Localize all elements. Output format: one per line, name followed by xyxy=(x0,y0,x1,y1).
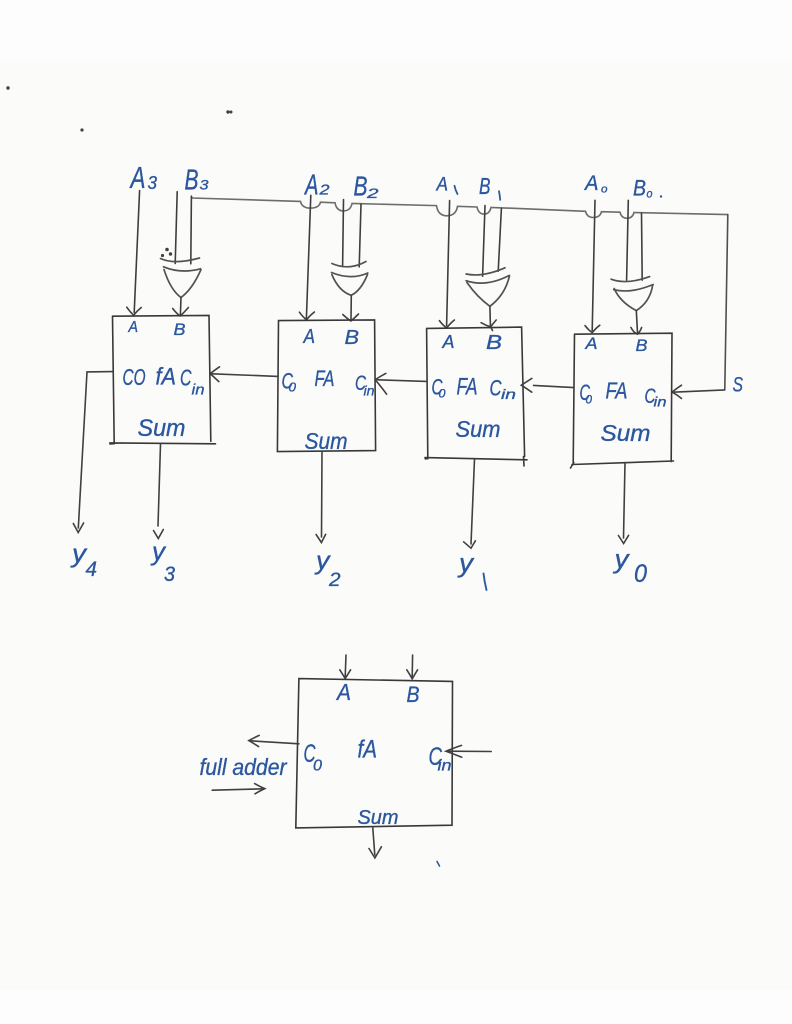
wire: B0 input xyxy=(627,200,629,280)
arrowhead y0 xyxy=(618,535,628,543)
wire: A input arrow xyxy=(344,655,347,677)
svg-text:fA: fA xyxy=(358,736,378,764)
svg-text:Sum: Sum xyxy=(305,428,348,454)
svg-text:B: B xyxy=(354,171,368,202)
wire: FA1 C0 out, left then down to y4 xyxy=(78,372,112,528)
wire: FA3 sum out xyxy=(471,459,475,544)
wire: XOR3 output xyxy=(489,306,492,326)
wire: S stub to XOR2 xyxy=(359,204,361,267)
wire: Cin input arrow from right xyxy=(448,750,492,752)
faint page specks xyxy=(227,111,229,113)
svg-text:y: y xyxy=(457,548,475,578)
wire: XOR2 output xyxy=(350,295,352,319)
svg-text:2: 2 xyxy=(328,570,341,591)
svg-text:B: B xyxy=(407,682,420,707)
arrowhead y4 xyxy=(73,523,83,533)
full adder FA1 box (bit 3) xyxy=(110,315,216,444)
svg-text:in: in xyxy=(192,382,205,399)
svg-text:in: in xyxy=(501,386,516,402)
wire: FA1 sum out xyxy=(158,444,161,526)
wire: B1 input xyxy=(483,206,485,277)
wire: S to Cin of FA4 xyxy=(673,390,725,392)
svg-text:3: 3 xyxy=(200,177,209,193)
arrowhead y3 xyxy=(154,530,164,539)
arrowhead XOR2 out into FA2 B xyxy=(343,314,359,321)
svg-text:A: A xyxy=(128,319,138,336)
blue tick mark xyxy=(437,862,440,867)
wire: B2 input xyxy=(342,200,345,267)
svg-text:full adder: full adder xyxy=(200,754,288,780)
svg-text:B: B xyxy=(185,165,199,197)
wire: S stub to XOR3 xyxy=(498,209,501,272)
arrowhead y1 xyxy=(464,541,476,548)
xor gate X2 (stage 2) xyxy=(332,262,368,296)
svg-text:Sum: Sum xyxy=(601,420,651,446)
wire: C0 output arrow to left xyxy=(250,741,299,744)
svg-text:2: 2 xyxy=(318,182,330,199)
svg-text:Sum: Sum xyxy=(358,807,399,829)
svg-text:in: in xyxy=(364,383,375,399)
arrowhead XOR4 out into FA4 B xyxy=(631,328,642,335)
svg-text:0: 0 xyxy=(439,387,446,401)
wire: full adder pointer arrow xyxy=(212,789,264,790)
arrowhead A3 into FA1 xyxy=(127,307,141,315)
svg-text:A: A xyxy=(583,172,598,195)
wire: FA4 sum out xyxy=(624,463,626,538)
svg-text:B: B xyxy=(636,336,648,355)
wire: A0 input xyxy=(592,200,595,330)
svg-text:FA: FA xyxy=(315,366,335,391)
svg-text:A: A xyxy=(302,325,315,348)
wire: S line right vertical drop xyxy=(725,215,728,389)
wire: A1 input xyxy=(447,201,450,326)
xor gate X4 (stage 0) xyxy=(611,277,653,311)
xor gate X1 (stage 3) xyxy=(161,258,202,298)
svg-text:B: B xyxy=(345,326,360,349)
svg-text:A: A xyxy=(129,160,145,195)
wire: S stub to XOR1 xyxy=(190,196,193,264)
wire: B3 input from label xyxy=(175,192,177,264)
svg-text:B: B xyxy=(479,173,491,199)
svg-text:B: B xyxy=(633,176,646,201)
wire: A3 input xyxy=(134,191,139,313)
subscript tick of y1 xyxy=(484,574,487,591)
full adder FA3 box (bit 1) xyxy=(425,327,527,466)
arrowhead into FA4 Cin xyxy=(672,385,681,398)
subscript tick of A1 xyxy=(455,186,458,194)
arrowhead into FA3 Cin xyxy=(521,378,532,392)
wire: B input arrow xyxy=(411,655,413,677)
stray pen dots near XOR1 xyxy=(166,249,168,251)
svg-text:o: o xyxy=(601,184,608,196)
svg-text:0: 0 xyxy=(634,560,647,588)
svg-text:0: 0 xyxy=(289,380,297,395)
svg-text:in: in xyxy=(654,394,667,410)
svg-text:Sum: Sum xyxy=(138,415,186,442)
svg-text:3: 3 xyxy=(148,173,158,193)
svg-text:fA: fA xyxy=(156,364,177,391)
svg-text:C: C xyxy=(180,365,192,391)
wire: FA2 sum out xyxy=(321,452,324,537)
arrowhead A1 into FA3 xyxy=(439,320,454,328)
svg-text:y: y xyxy=(612,544,630,574)
svg-text:A: A xyxy=(335,679,351,705)
arrowhead A2 into FA2 xyxy=(299,312,314,320)
svg-text:B: B xyxy=(174,320,186,339)
svg-text:in: in xyxy=(438,758,452,775)
xor gate X3 (stage 1) xyxy=(466,268,509,307)
subscript tick of B1 xyxy=(499,191,500,200)
svg-text:2: 2 xyxy=(366,185,379,201)
wire: A2 input xyxy=(306,195,310,318)
svg-text:FA: FA xyxy=(606,378,628,404)
svg-text:C: C xyxy=(490,376,502,401)
wire: XOR4 output xyxy=(636,311,637,333)
svg-text:0: 0 xyxy=(586,393,593,407)
arrowhead y2 xyxy=(316,534,326,542)
arrowhead A0 into FA4 xyxy=(585,325,600,332)
svg-text:A: A xyxy=(442,332,455,352)
wire: FA4 C0 to FA3 Cin xyxy=(534,385,575,387)
wire: FA3 C0 to FA2 Cin xyxy=(378,380,427,382)
arrowhead XOR1 out into FA1 B xyxy=(173,308,189,317)
svg-text:Sum: Sum xyxy=(456,416,501,442)
arrowhead XOR3 out into FA3 B xyxy=(481,320,496,331)
arrowhead into FA1 Cin xyxy=(210,367,219,382)
full adder FA2 box (bit 2) xyxy=(277,320,375,452)
svg-text:4: 4 xyxy=(86,558,98,581)
arrowhead into FA2 Cin xyxy=(375,373,386,394)
svg-text:S: S xyxy=(733,374,744,397)
svg-text:A: A xyxy=(304,170,319,202)
svg-text:CO: CO xyxy=(123,364,146,390)
svg-text:o: o xyxy=(647,189,654,201)
svg-text:A: A xyxy=(436,175,448,196)
svg-text:B: B xyxy=(486,332,502,354)
full adder U5 box xyxy=(296,679,453,828)
svg-text:y: y xyxy=(150,536,167,566)
full adder FA4 box (bit 0) xyxy=(571,333,674,468)
svg-text:0: 0 xyxy=(313,758,322,775)
wire: sum output arrow down xyxy=(373,828,375,855)
svg-text:3: 3 xyxy=(164,563,175,586)
svg-text:FA: FA xyxy=(457,374,478,401)
node S: top select line with hops over crossing wires xyxy=(191,196,727,218)
svg-text:A: A xyxy=(584,334,597,353)
wire: XOR1 output xyxy=(179,298,182,315)
wire: S stub to XOR4 xyxy=(641,213,644,280)
wire: FA2 C0 to FA1 Cin xyxy=(212,374,278,377)
